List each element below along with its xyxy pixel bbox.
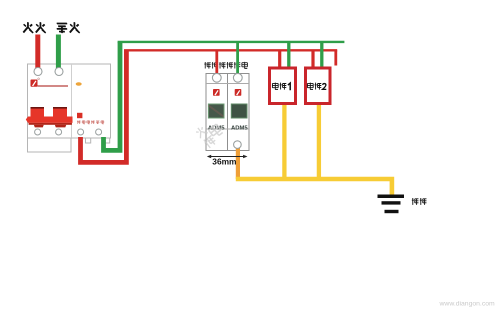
breaker brand logo <box>31 78 40 87</box>
wire neutral feed into breaker <box>56 35 61 72</box>
svg-text:36mm: 36mm <box>212 156 236 166</box>
svg-text:ADM5: ADM5 <box>231 126 248 132</box>
green bus wire <box>118 41 345 43</box>
red drop to SPD left terminal <box>215 50 218 78</box>
breaker bottom terminal 4 <box>96 129 102 135</box>
breaker QF1 body <box>28 64 111 152</box>
SPD window right <box>231 104 247 118</box>
SPD top terminal left <box>212 73 221 82</box>
power box 2 <box>306 68 331 104</box>
wire neutral from breaker out (U up to green bus) <box>104 42 121 150</box>
green drop to power box 2 <box>320 42 323 69</box>
power box 1 <box>270 68 296 104</box>
SPD label (fang lang yong bao hu qi) <box>204 62 247 69</box>
green drop to power box 1 <box>287 42 290 69</box>
watermark streak over left window <box>209 106 224 117</box>
breaker red rule line <box>38 85 69 87</box>
SPD window left <box>208 104 224 118</box>
ground wire yellow main run <box>236 179 392 197</box>
svg-text:www.diangon.com: www.diangon.com <box>439 301 495 308</box>
red bus wire <box>124 49 337 51</box>
wire live from breaker out (U up to red bus) <box>81 50 127 162</box>
power box 1 label <box>272 83 290 91</box>
red drop to power box 2 <box>311 50 314 68</box>
breaker bottom terminal 2 <box>56 129 62 135</box>
breaker top terminal 2 <box>55 68 63 76</box>
ground symbol bar 2 <box>382 201 401 204</box>
SPD logo right <box>235 89 242 96</box>
SPD logo left <box>213 89 220 96</box>
red bus right end stub <box>334 50 337 65</box>
label live wire (huo xian) <box>23 22 46 33</box>
ground label (jie di) <box>412 198 427 205</box>
SPD top terminal right <box>233 73 242 82</box>
breaker bottom terminal 1 <box>35 129 41 135</box>
ground wire orange stub from SPD <box>236 145 240 179</box>
wire live feed into breaker <box>35 35 40 72</box>
ground wire yellow from power box 2 <box>317 103 321 179</box>
watermark seal center <box>194 117 225 149</box>
red drop to power box 1 <box>278 50 281 68</box>
breaker tiny red label text <box>77 120 104 124</box>
breaker bottom terminal 3 <box>78 129 84 135</box>
breaker test button <box>77 113 82 118</box>
dimension line 36mm <box>209 156 246 158</box>
ground symbol bar 3 <box>385 210 399 213</box>
breaker top terminal 1 <box>34 68 42 76</box>
label neutral wire (ling xian) <box>57 22 80 33</box>
breaker handles <box>26 107 73 127</box>
SPD U2 body <box>206 74 249 151</box>
green drop to SPD right terminal <box>236 42 239 78</box>
breaker indicator lamp <box>76 82 82 85</box>
power box 2 label <box>307 83 326 90</box>
ground symbol bar 1 <box>378 195 405 199</box>
ground wire yellow from power box 1 <box>282 103 286 179</box>
SPD bottom terminal <box>234 141 242 149</box>
